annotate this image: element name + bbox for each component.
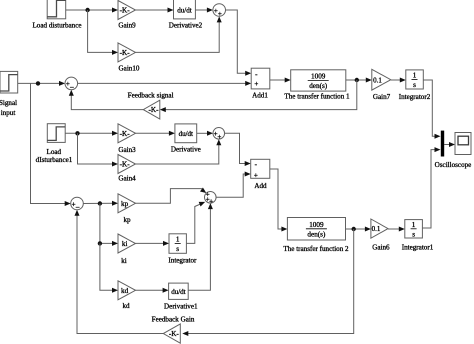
- svg-text:–: –: [75, 203, 80, 211]
- svg-text:input: input: [1, 109, 16, 117]
- svg-text:Gain3: Gain3: [118, 146, 136, 154]
- svg-text:kd: kd: [121, 287, 129, 295]
- svg-text:1: 1: [412, 221, 416, 229]
- svg-text:den(s): den(s): [307, 230, 326, 238]
- svg-text:+: +: [254, 80, 258, 88]
- svg-text:s: s: [413, 81, 416, 89]
- svg-text:-K-: -K-: [120, 7, 131, 15]
- svg-text:Integrator2: Integrator2: [399, 93, 431, 101]
- svg-text:-K-: -K-: [169, 330, 180, 338]
- svg-text:+: +: [218, 10, 222, 18]
- svg-text:+: +: [217, 133, 221, 141]
- svg-text:Oscilloscope: Oscilloscope: [435, 161, 472, 169]
- svg-text:Gain4: Gain4: [118, 175, 136, 183]
- svg-text:-K-: -K-: [120, 49, 131, 57]
- svg-text:Derivative1: Derivative1: [164, 303, 198, 311]
- svg-text:Feedback signal: Feedback signal: [128, 92, 174, 100]
- svg-text:ki: ki: [122, 240, 128, 248]
- svg-text:Add1: Add1: [252, 92, 268, 100]
- svg-text:kp: kp: [123, 216, 131, 224]
- svg-text:du/dt: du/dt: [177, 7, 191, 15]
- svg-text:The transfer function 2: The transfer function 2: [283, 245, 349, 253]
- svg-text:Derivative2: Derivative2: [169, 22, 203, 30]
- svg-text:du/dt: du/dt: [179, 130, 193, 138]
- svg-text:s: s: [176, 245, 179, 253]
- svg-text:Load disturbance: Load disturbance: [32, 22, 81, 30]
- svg-text:+: +: [254, 171, 258, 179]
- svg-text:den(s): den(s): [309, 82, 328, 90]
- svg-text:ki: ki: [121, 257, 127, 265]
- svg-text:Gain6: Gain6: [372, 244, 390, 252]
- svg-text:Load: Load: [47, 148, 62, 156]
- svg-text:Gain7: Gain7: [373, 93, 391, 101]
- svg-text:-K-: -K-: [120, 130, 131, 138]
- svg-text:du/dt: du/dt: [171, 288, 185, 296]
- svg-text:1: 1: [176, 236, 180, 244]
- svg-text:–: –: [69, 83, 74, 91]
- svg-text:Integrator1: Integrator1: [402, 244, 434, 252]
- svg-text:0.1: 0.1: [373, 76, 382, 84]
- svg-text:1009: 1009: [309, 221, 324, 229]
- svg-text:Signal: Signal: [0, 99, 17, 107]
- svg-text:dIsturbance1: dIsturbance1: [36, 156, 73, 164]
- svg-text:Derivative: Derivative: [171, 146, 201, 154]
- svg-text:Gain9: Gain9: [118, 22, 136, 30]
- svg-text:-K-: -K-: [120, 161, 131, 169]
- svg-text:Add: Add: [254, 182, 267, 190]
- svg-text:0.1: 0.1: [372, 225, 381, 233]
- svg-text:The transfer function 1: The transfer function 1: [284, 93, 350, 101]
- svg-text:-K-: -K-: [149, 106, 160, 114]
- svg-text:s: s: [412, 230, 415, 238]
- svg-text:+: +: [209, 198, 213, 206]
- svg-text:Integrator: Integrator: [168, 257, 197, 265]
- svg-text:kp: kp: [121, 200, 129, 208]
- svg-text:Feedback Gain: Feedback Gain: [152, 316, 195, 324]
- svg-text:Gain10: Gain10: [119, 65, 140, 73]
- svg-text:1009: 1009: [311, 73, 326, 81]
- svg-text:1: 1: [413, 72, 417, 80]
- svg-text:kd: kd: [122, 302, 130, 310]
